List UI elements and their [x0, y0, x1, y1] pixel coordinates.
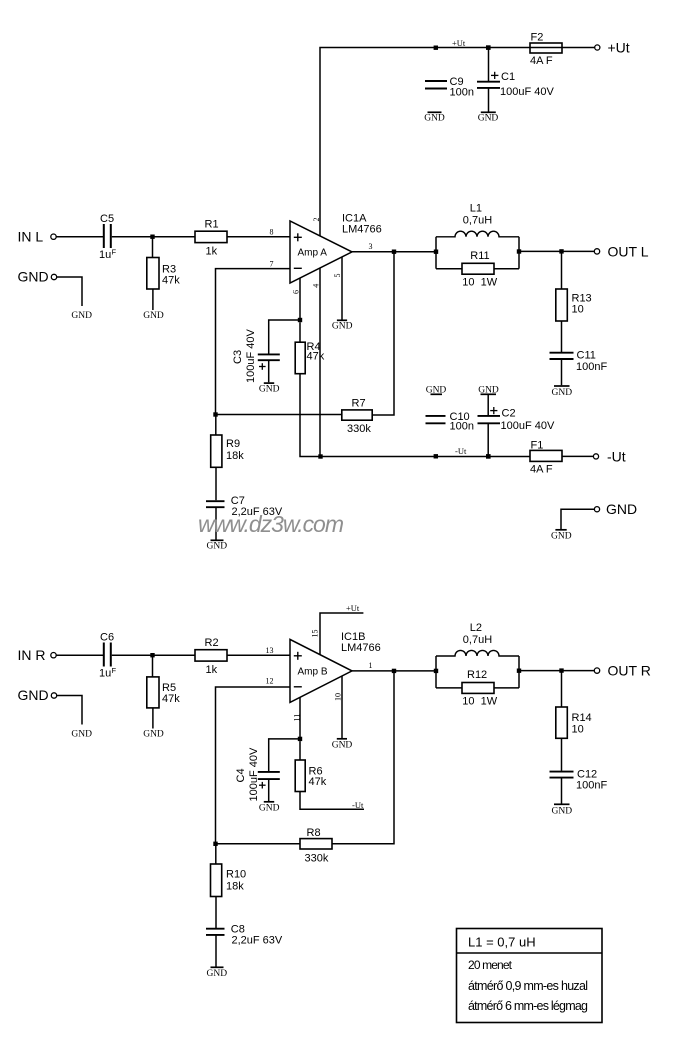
wire R1 to pin8 — [227, 236, 290, 238]
svg-text:GND: GND — [424, 114, 445, 124]
svg-text:100uF 40V: 100uF 40V — [245, 329, 257, 383]
terminal OUT L — [594, 249, 599, 254]
svg-text:LM4766: LM4766 — [342, 224, 382, 236]
wire R5 to ground — [152, 708, 154, 729]
svg-text:C11: C11 — [577, 350, 596, 362]
svg-text:LM4766: LM4766 — [341, 642, 381, 654]
resistor R7 left lead — [216, 414, 342, 416]
svg-text:C2: C2 — [502, 407, 516, 419]
capacitor C10 plates — [426, 416, 446, 423]
ground C8 — [211, 966, 224, 968]
wire F2 to +Ut terminal — [530, 47, 595, 49]
wire feedback drop to R7 — [372, 252, 394, 415]
svg-text:L1 = 0,7 uH: L1 = 0,7 uH — [468, 935, 536, 950]
inductor L1 left connector — [435, 237, 437, 269]
svg-text:1: 1 — [369, 661, 373, 670]
svg-text:IC1B: IC1B — [341, 631, 365, 643]
svg-text:GND: GND — [143, 311, 164, 321]
svg-text:100n: 100n — [450, 421, 474, 433]
wire C5 to R1 — [112, 236, 195, 238]
svg-text:7: 7 — [270, 259, 274, 268]
capacitor C1 plus sign — [491, 72, 498, 79]
svg-text:6: 6 — [292, 290, 301, 294]
resistor R3 leads — [152, 237, 154, 258]
ground pin5 — [337, 319, 347, 321]
svg-text:13: 13 — [266, 646, 274, 655]
svg-text:R1: R1 — [205, 219, 219, 231]
svg-text:18k: 18k — [226, 450, 244, 462]
svg-text:C6: C6 — [100, 632, 114, 644]
svg-text:100uF 40V: 100uF 40V — [501, 420, 555, 432]
node junction L2 left — [434, 669, 438, 673]
svg-text:47k: 47k — [307, 351, 325, 363]
wire C6 to R2 — [112, 654, 195, 656]
svg-text:F: F — [112, 248, 117, 257]
svg-text:C4: C4 — [235, 768, 247, 782]
svg-text:4: 4 — [312, 284, 321, 288]
node junction C2 on -Ut rail — [486, 454, 491, 459]
svg-text:GND: GND — [478, 386, 499, 396]
svg-text:100n: 100n — [450, 87, 474, 99]
wire pin6 mute — [299, 278, 301, 320]
svg-text:15: 15 — [311, 630, 320, 638]
svg-text:IC1A: IC1A — [342, 212, 367, 224]
terminal GND input R — [51, 693, 56, 698]
resistor R8 left lead — [216, 843, 301, 845]
node junction pin4 on -Ut rail — [318, 454, 322, 458]
resistor R13 top lead — [561, 251, 563, 289]
wire C2 bottom stub — [487, 424, 489, 457]
terminal +Ut — [595, 45, 600, 50]
resistor R13 box — [556, 289, 568, 321]
op-amp U1B triangle — [290, 639, 352, 702]
wire C4 to ground — [268, 779, 270, 801]
terminal OUT R — [594, 668, 599, 673]
note box divider — [457, 952, 603, 954]
wire R3 to ground — [152, 289, 154, 310]
ground C12 — [554, 803, 570, 805]
wire output to OUT L terminal — [519, 250, 594, 252]
fuse F1 — [530, 450, 562, 461]
resistor R11 box — [462, 263, 494, 274]
capacitor C2 plates — [478, 416, 501, 423]
wire R13 to C11 — [561, 321, 563, 352]
wire C3 tap from pin6 node — [269, 320, 300, 354]
capacitor C6 plates — [104, 643, 111, 667]
wire C2 top stub — [487, 395, 489, 416]
svg-text:GND: GND — [18, 269, 49, 285]
resistor R14 box — [556, 707, 568, 738]
wire +Ut rail top with pin2 riser — [320, 48, 530, 237]
svg-text:Amp B: Amp B — [298, 667, 328, 678]
resistor R8 box — [300, 839, 332, 849]
resistor R12 box — [462, 683, 494, 694]
wire IN L to C5 — [56, 236, 103, 238]
capacitor C12 plates — [550, 772, 574, 778]
svg-text:R14: R14 — [572, 712, 592, 724]
wire pin4 to -Ut rail — [319, 268, 321, 457]
svg-text:GND: GND — [18, 687, 49, 703]
svg-text:47k: 47k — [162, 693, 180, 705]
svg-text:1u: 1u — [99, 668, 111, 680]
capacitor C2 plus sign — [490, 407, 497, 414]
note box frame — [457, 929, 603, 1023]
capacitor C8 plates — [206, 929, 225, 935]
node junction output feedback tap — [392, 250, 396, 254]
wire pin5 to ground — [341, 257, 343, 320]
ground C10 flipped — [431, 393, 443, 395]
svg-text:átmérő 6 mm-es légmag: átmérő 6 mm-es légmag — [468, 999, 588, 1013]
svg-text:10: 10 — [572, 304, 584, 316]
op-amp B plus input marker — [294, 652, 302, 660]
wire C3 to ground — [268, 361, 270, 383]
wire C8 to ground — [215, 935, 217, 966]
svg-text:+Ut: +Ut — [346, 603, 360, 613]
svg-text:F2: F2 — [531, 32, 544, 44]
terminal GND input L — [51, 274, 56, 279]
svg-text:-Ut: -Ut — [607, 448, 626, 464]
resistor R14 top lead — [561, 671, 563, 707]
svg-text:GND: GND — [71, 311, 92, 321]
wire pin11 mute — [299, 697, 301, 739]
resistor R3 box — [147, 258, 159, 290]
svg-text:0,7uH: 0,7uH — [463, 215, 492, 227]
wire C11 to ground — [561, 360, 563, 386]
capacitor C1 top stub — [488, 48, 490, 82]
wire R2 to pin13 — [227, 654, 290, 656]
svg-text:C8: C8 — [231, 923, 245, 935]
svg-text:GND: GND — [332, 322, 353, 332]
svg-text:100uF 40V: 100uF 40V — [248, 747, 260, 801]
node junction at R3 tap — [150, 235, 154, 239]
resistor R4 top lead — [299, 322, 301, 342]
wire R10 to C8 — [215, 897, 217, 929]
inductor L1 right connector — [518, 237, 520, 269]
wire IN R to C6 — [56, 654, 103, 656]
resistor R9 top lead — [215, 415, 217, 436]
ground C1 — [481, 111, 496, 113]
resistor R6 box — [295, 760, 305, 792]
svg-text:R12: R12 — [467, 669, 487, 681]
node junction L1 right — [517, 249, 521, 253]
svg-text:GND: GND — [606, 501, 637, 517]
wire pin10 to ground — [341, 676, 343, 738]
ground C2 flipped — [481, 393, 497, 395]
svg-text:GND: GND — [207, 542, 228, 552]
svg-text:GND: GND — [552, 806, 573, 816]
svg-text:8: 8 — [270, 228, 274, 237]
svg-text:1k: 1k — [206, 664, 218, 676]
resistor R1 box — [195, 231, 227, 242]
svg-text:www.dz3w.com: www.dz3w.com — [198, 511, 344, 537]
svg-text:L1: L1 — [470, 203, 482, 215]
svg-text:4A F: 4A F — [530, 55, 553, 67]
wire pin7 inverting input — [216, 269, 291, 415]
svg-text:10: 10 — [334, 693, 343, 701]
svg-text:10: 10 — [572, 724, 584, 736]
svg-text:47k: 47k — [162, 275, 180, 287]
svg-text:100nF: 100nF — [576, 780, 607, 792]
svg-text:+Ut: +Ut — [452, 38, 466, 48]
wire output to OUT R terminal — [519, 670, 594, 672]
terminal -Ut — [593, 454, 598, 459]
svg-text:R9: R9 — [226, 438, 240, 450]
inductor L2 right connector — [518, 656, 520, 688]
svg-text:GND: GND — [332, 740, 353, 750]
node junction C10 on -Ut rail — [434, 454, 438, 458]
svg-text:11: 11 — [293, 714, 302, 722]
svg-text:IN R: IN R — [18, 647, 46, 663]
ground C7 — [211, 539, 224, 541]
svg-text:R8: R8 — [307, 827, 321, 839]
svg-text:Amp A: Amp A — [298, 248, 328, 259]
svg-text:R7: R7 — [352, 398, 366, 410]
capacitor C7 plates — [206, 501, 225, 507]
op-amp plus input marker — [294, 233, 302, 241]
node junction L1 left — [434, 250, 438, 254]
wire R6 to -Ut net label — [300, 792, 364, 810]
wire R4 to -Ut rail — [300, 374, 530, 457]
svg-text:IN L: IN L — [18, 228, 44, 244]
svg-text:GND: GND — [426, 386, 447, 396]
resistor R11 right lead — [494, 268, 519, 270]
svg-text:L2: L2 — [470, 622, 482, 634]
resistor R4 box — [295, 342, 305, 374]
node junction pin11 mute — [298, 737, 302, 741]
ground C11 — [554, 385, 570, 387]
wire R9 to C7 — [215, 467, 217, 500]
node junction C1 on +Ut rail — [486, 45, 491, 50]
node junction R13 tap — [559, 249, 563, 253]
wire GND terminal R — [57, 696, 82, 725]
capacitor C9 plates — [425, 81, 447, 89]
resistor R5 top lead — [152, 655, 154, 677]
svg-text:C12: C12 — [577, 768, 597, 780]
svg-text:3: 3 — [369, 242, 373, 251]
svg-text:10 1W: 10 1W — [462, 276, 497, 288]
svg-text:GND: GND — [71, 730, 92, 740]
resistor R12 right lead — [494, 687, 519, 689]
terminal GND mid right — [594, 507, 599, 512]
svg-text:20 menet: 20 menet — [468, 958, 513, 972]
wire pin12 inverting input — [216, 687, 291, 844]
fuse F2 — [530, 43, 562, 53]
svg-text:OUT R: OUT R — [608, 663, 651, 679]
svg-text:2,2uF 63V: 2,2uF 63V — [232, 935, 283, 947]
svg-text:GND: GND — [259, 803, 280, 813]
wire C1 bottom stub — [488, 88, 490, 112]
ground C3 — [264, 382, 274, 384]
svg-text:R11: R11 — [470, 250, 489, 262]
svg-text:1u: 1u — [99, 249, 111, 261]
resistor R9 box — [211, 435, 222, 467]
resistor R2 box — [195, 650, 227, 661]
node junction C9 on +Ut rail — [434, 46, 438, 50]
svg-text:0,7uH: 0,7uH — [463, 634, 492, 646]
svg-text:+Ut: +Ut — [608, 40, 630, 56]
node junction feedback left — [213, 412, 217, 416]
svg-text:C3: C3 — [232, 350, 244, 364]
svg-text:100uF 40V: 100uF 40V — [500, 86, 554, 98]
capacitor C5 plates — [104, 224, 111, 248]
ground pin10 — [337, 738, 347, 740]
svg-text:5: 5 — [333, 274, 342, 278]
node junction R14 tap — [559, 668, 563, 672]
resistor R7 box — [342, 410, 372, 420]
terminal IN L — [51, 234, 56, 239]
node junction L2 right — [517, 669, 521, 673]
wire F1 to -Ut terminal — [562, 455, 593, 457]
svg-text:R10: R10 — [226, 869, 246, 881]
svg-text:F: F — [112, 666, 117, 675]
svg-text:2: 2 — [312, 218, 321, 222]
op-amp minus input marker — [294, 267, 302, 269]
capacitor C3 plus sign — [259, 363, 266, 370]
wire output pin3 — [352, 251, 436, 253]
svg-text:4A F: 4A F — [530, 464, 553, 476]
svg-text:GND: GND — [143, 730, 164, 740]
svg-text:-Ut: -Ut — [455, 446, 467, 456]
wire output pin1 — [352, 670, 436, 672]
node junction output B feedback tap — [392, 669, 396, 673]
svg-text:C5: C5 — [100, 213, 114, 225]
wire GND mid terminal — [561, 509, 594, 529]
terminal IN R — [51, 653, 56, 658]
svg-text:GND: GND — [552, 388, 573, 398]
svg-text:330k: 330k — [305, 852, 329, 864]
svg-text:GND: GND — [259, 385, 280, 395]
node junction pin6 mute — [298, 318, 302, 322]
svg-text:átmérő 0,9 mm-es huzal: átmérő 0,9 mm-es huzal — [468, 979, 588, 993]
resistor R6 top lead — [299, 741, 301, 760]
ground C9 — [428, 111, 442, 113]
svg-text:F1: F1 — [531, 440, 544, 452]
svg-text:1k: 1k — [206, 246, 218, 258]
resistor R11 left lead — [436, 268, 462, 270]
capacitor C1 plates — [477, 82, 500, 88]
svg-text:OUT L: OUT L — [608, 243, 649, 259]
svg-text:18k: 18k — [226, 881, 244, 893]
svg-text:GND: GND — [551, 531, 572, 541]
svg-text:47k: 47k — [309, 776, 327, 788]
op-amp B minus input marker — [294, 686, 302, 688]
svg-text:R2: R2 — [205, 637, 219, 649]
ground GND mid — [555, 529, 566, 531]
resistor R10 box — [211, 864, 222, 897]
node junction feedback left B — [213, 842, 217, 846]
wire R14 to C12 — [561, 738, 563, 771]
inductor L2 left connector — [435, 656, 437, 688]
resistor R10 top lead — [215, 844, 217, 864]
wire GND terminal L — [57, 277, 82, 306]
node junction at R5 tap — [150, 653, 154, 657]
inductor L2 coil — [436, 650, 519, 656]
capacitor C11 plates — [550, 353, 574, 359]
wire C12 to ground — [561, 778, 563, 804]
resistor R5 box — [147, 677, 159, 708]
ground C4 — [264, 801, 274, 803]
wire feedback drop to R8 — [332, 671, 394, 844]
svg-text:GND: GND — [478, 114, 499, 124]
svg-text:GND: GND — [207, 969, 228, 979]
svg-text:12: 12 — [266, 677, 274, 686]
svg-text:330k: 330k — [347, 423, 371, 435]
inductor L1 coil — [436, 231, 519, 237]
wire pin15 to +Ut net — [320, 613, 363, 655]
svg-text:C1: C1 — [501, 71, 515, 83]
svg-text:10 1W: 10 1W — [462, 696, 497, 708]
wire C4 tap from pin11 node — [269, 739, 300, 772]
op-amp U1A triangle — [290, 221, 352, 283]
wire C7 to ground — [215, 508, 217, 540]
capacitor C3 plates — [258, 354, 280, 360]
capacitor C4 plates — [258, 772, 280, 779]
svg-text:100nF: 100nF — [576, 361, 607, 373]
capacitor C4 plus sign — [259, 782, 266, 789]
svg-text:-Ut: -Ut — [352, 800, 364, 810]
resistor R12 left lead — [436, 687, 462, 689]
